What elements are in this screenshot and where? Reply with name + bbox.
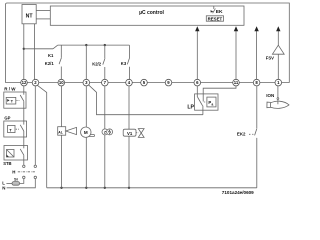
wire K1 feed xyxy=(24,48,53,50)
relay contact K2/2 xyxy=(92,45,105,79)
wire valve to N bus xyxy=(128,136,130,188)
wire N bus xyxy=(47,187,257,189)
terminal 12 xyxy=(21,79,28,86)
NT box (power supply) xyxy=(22,5,36,24)
relay contact K1 xyxy=(48,45,58,58)
wire NT to uC lower xyxy=(36,18,50,20)
svg-text:µC control: µC control xyxy=(139,10,164,16)
svg-text:LP: LP xyxy=(187,104,194,110)
wire terminal 4 to valve xyxy=(128,86,130,129)
svg-text:AL: AL xyxy=(58,131,63,135)
svg-text:12: 12 xyxy=(22,80,27,85)
svg-text:EK2: EK2 xyxy=(237,132,246,137)
terminal 6 xyxy=(194,79,201,86)
svg-text:STB: STB xyxy=(3,161,11,166)
node N bus junction V1 xyxy=(128,187,130,189)
valve body xyxy=(138,129,144,138)
terminal 7 xyxy=(102,79,109,86)
push-button EK xyxy=(210,6,223,15)
relay contact K2/1 xyxy=(45,45,62,79)
RESET box xyxy=(206,16,223,22)
ionisation electrode ION xyxy=(266,93,289,108)
svg-text:V1: V1 xyxy=(127,131,133,136)
wire terminal 11 to LP contact xyxy=(203,86,236,102)
node junction on leg for K1 feed xyxy=(23,48,25,50)
housing boundary wire xyxy=(6,3,290,83)
op-amp U1 uC control box xyxy=(50,6,244,25)
switch contact in GP xyxy=(20,125,24,149)
svg-text:Si: Si xyxy=(14,177,18,182)
amplifier FSV xyxy=(266,45,284,60)
terminal 4 xyxy=(126,79,133,86)
wire plug to fuse xyxy=(20,179,24,184)
terminal 9 xyxy=(165,79,172,86)
svg-text:a: a xyxy=(212,102,214,106)
wire terminal 11 to uC with arrow xyxy=(234,26,238,79)
svg-text:K1: K1 xyxy=(48,53,54,58)
safety limiter STB box xyxy=(3,146,27,166)
terminal 8 xyxy=(253,79,260,86)
svg-text:M: M xyxy=(84,130,88,135)
svg-text:K3: K3 xyxy=(121,61,127,66)
terminal 5 xyxy=(141,79,148,86)
terminal 10 xyxy=(58,79,65,86)
svg-text:10: 10 xyxy=(59,80,64,85)
wire motor to N bus xyxy=(85,137,87,187)
wire terminal 1 to electrode xyxy=(277,86,279,98)
svg-text:11: 11 xyxy=(234,80,239,85)
switch contact in R/W xyxy=(20,86,24,125)
document number xyxy=(222,190,254,195)
wire terminal 3 to motor xyxy=(85,86,87,127)
wire NT left leg to terminal 12 xyxy=(23,24,25,80)
wire rail to terminal 3 xyxy=(85,45,87,79)
wire relay rail xyxy=(58,44,130,46)
terminal bus wire xyxy=(6,82,290,84)
svg-text:N: N xyxy=(2,185,5,190)
wire terminal 8 to uC with arrow xyxy=(254,26,258,79)
switch contact in STB xyxy=(20,149,24,165)
node N bus junction AL xyxy=(60,187,62,189)
svg-text:NT: NT xyxy=(26,13,34,19)
svg-text:H: H xyxy=(12,170,15,175)
alarm AL xyxy=(58,127,77,136)
wire terminal 6 to uC with arrow xyxy=(195,26,199,79)
pressure sensor Pa box xyxy=(207,97,216,107)
valve coil V1 xyxy=(123,129,138,136)
svg-text:ION: ION xyxy=(266,93,274,98)
wire terminal 7 to ignition xyxy=(104,86,106,129)
svg-text:R / W: R / W xyxy=(4,86,16,91)
wire ignition to N bus xyxy=(104,135,106,188)
thermostat R/W box xyxy=(4,86,26,108)
node N bus junction Z xyxy=(104,187,106,189)
svg-text:RESET: RESET xyxy=(208,17,223,22)
air pressure switch LP xyxy=(187,86,218,115)
wire terminal 3 diagonal to LP common xyxy=(89,85,203,115)
wire terminal 1 to FSV to uC with arrow xyxy=(276,26,280,79)
svg-text:K2/1: K2/1 xyxy=(45,61,55,66)
push-button EK2 xyxy=(237,128,257,187)
terminal 2 xyxy=(32,79,39,86)
wire terminal 2 plug upper xyxy=(34,86,36,165)
node rail junction T7 xyxy=(104,44,106,46)
wire NT to uC upper xyxy=(36,9,50,11)
node N xyxy=(2,179,35,191)
gas pressure switch GP box xyxy=(4,115,27,137)
svg-text:EK: EK xyxy=(216,9,223,15)
svg-text:GP: GP xyxy=(4,115,10,120)
relay contact K3 xyxy=(121,45,130,79)
wire alarm to N bus xyxy=(61,135,63,188)
motor M xyxy=(81,127,95,137)
wire terminal 8 to EK2 xyxy=(256,86,258,128)
node electrode connection xyxy=(277,98,279,100)
svg-text:K2/2: K2/2 xyxy=(92,62,102,67)
node N bus junction M xyxy=(85,187,87,189)
terminal 1 xyxy=(275,79,282,86)
wire NT right leg to terminal 2 xyxy=(34,24,36,80)
wire terminal 2 diagonal to N bus xyxy=(37,85,47,188)
node L xyxy=(2,180,12,185)
svg-text:FSV: FSV xyxy=(266,56,274,61)
terminal 3 xyxy=(83,79,90,86)
svg-text:7101a24e/0609: 7101a24e/0609 xyxy=(222,190,254,195)
node rail junction T3 xyxy=(85,44,87,46)
ignition transformer Z xyxy=(102,129,113,135)
terminal 11 xyxy=(233,79,240,86)
fuse Si xyxy=(12,177,20,186)
plug connector H xyxy=(12,165,36,178)
wire terminal 10 to alarm xyxy=(61,86,63,127)
